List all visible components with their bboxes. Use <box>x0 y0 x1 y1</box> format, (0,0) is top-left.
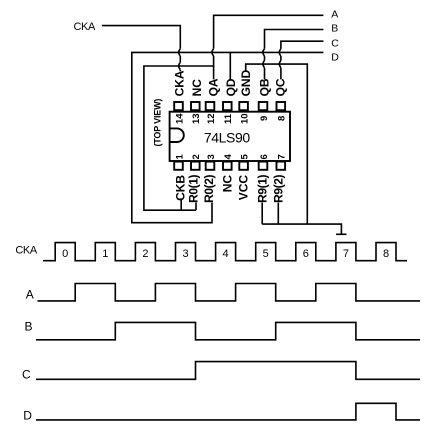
svg-text:74LS90: 74LS90 <box>204 129 250 145</box>
wire C net: QC pin to label C <box>281 41 324 79</box>
pin 2 square <box>191 162 200 170</box>
svg-text:10: 10 <box>239 113 250 124</box>
svg-text:R0(1): R0(1) <box>187 175 201 203</box>
wire hop CKA over D line <box>179 49 181 56</box>
wire QD drop to pin 11 label <box>229 52 231 79</box>
wire QB output waveform <box>36 322 420 339</box>
svg-text:B: B <box>331 22 338 34</box>
svg-text:QD: QD <box>224 78 238 96</box>
notch index mark <box>170 128 184 142</box>
wire QC output waveform <box>36 362 420 380</box>
svg-text:0: 0 <box>62 248 68 260</box>
svg-text:(TOP VIEW): (TOP VIEW) <box>153 99 163 147</box>
svg-text:B: B <box>25 319 33 333</box>
pin 1 square <box>174 162 183 170</box>
pin 9 square <box>259 102 268 110</box>
svg-text:2: 2 <box>142 248 148 260</box>
wire B net: QB pin to label B <box>265 30 324 80</box>
op-amp U1 74LS90 IC body <box>170 112 290 161</box>
svg-text:4: 4 <box>223 154 234 160</box>
wire QA to CKB and R0(1) net <box>144 66 214 210</box>
svg-text:VCC: VCC <box>237 175 251 201</box>
wire hop QC over GND line <box>279 61 281 68</box>
svg-text:R0(2): R0(2) <box>202 175 216 203</box>
pin 10 square <box>239 102 248 110</box>
ground <box>336 233 346 235</box>
wire hop CKA over QA-CKB line <box>179 62 181 69</box>
svg-text:D: D <box>331 52 339 64</box>
svg-text:7: 7 <box>343 248 349 260</box>
svg-text:9: 9 <box>259 116 270 121</box>
wire D net: QD pin to label D and to R0(2) pin 3 <box>132 52 324 222</box>
svg-text:QC: QC <box>273 78 287 96</box>
wire QD output waveform <box>36 403 420 420</box>
wire QA output waveform <box>38 284 421 301</box>
pin 14 square <box>174 102 183 110</box>
svg-text:NC: NC <box>190 79 204 97</box>
svg-text:GND: GND <box>239 69 253 96</box>
svg-text:R9(1): R9(1) <box>255 175 269 203</box>
pin 8 square <box>277 102 286 110</box>
svg-text:5: 5 <box>239 154 250 160</box>
svg-text:A: A <box>331 9 338 21</box>
svg-text:R9(2): R9(2) <box>271 175 285 203</box>
svg-text:12: 12 <box>206 113 217 124</box>
wire A net: QA pin to label A <box>214 15 324 79</box>
svg-text:3: 3 <box>182 248 188 260</box>
wire CKA net: label to pin 14 <box>102 26 180 72</box>
wire hop QC over D line <box>279 49 281 56</box>
pin 4 square <box>223 162 232 170</box>
svg-text:14: 14 <box>174 113 185 124</box>
svg-text:6: 6 <box>259 154 270 159</box>
pin 13 square <box>191 102 200 110</box>
svg-text:1: 1 <box>102 248 108 260</box>
pin 6 square <box>259 162 268 170</box>
wire GND net: pin 10 to ground <box>246 64 308 224</box>
svg-text:3: 3 <box>206 154 217 159</box>
svg-text:8: 8 <box>383 248 389 260</box>
svg-text:8: 8 <box>277 116 288 121</box>
svg-text:7: 7 <box>277 154 288 159</box>
svg-text:4: 4 <box>223 248 229 260</box>
wire hop QB over D line <box>263 49 265 56</box>
svg-text:QA: QA <box>206 78 220 96</box>
svg-text:QB: QB <box>257 78 271 96</box>
svg-text:C: C <box>331 37 339 49</box>
wire hop QB over GND line <box>263 61 265 68</box>
pin 7 square <box>277 162 286 170</box>
svg-text:CKA: CKA <box>173 70 187 96</box>
svg-text:C: C <box>22 367 31 381</box>
svg-text:13: 13 <box>191 113 202 124</box>
svg-text:NC: NC <box>221 175 235 193</box>
svg-text:CKA: CKA <box>15 245 37 257</box>
svg-text:6: 6 <box>303 248 309 260</box>
svg-text:CKA: CKA <box>74 21 96 33</box>
pin 12 square <box>206 102 215 110</box>
wire CKA clock waveform <box>43 243 407 261</box>
pin 3 square <box>206 162 215 170</box>
svg-text:D: D <box>23 408 32 422</box>
svg-text:11: 11 <box>223 113 234 124</box>
wire R9(1) and R9(2) to ground rail <box>262 203 341 235</box>
pin 11 square <box>223 102 232 110</box>
svg-text:A: A <box>26 288 34 302</box>
svg-text:2: 2 <box>191 154 202 159</box>
svg-text:1: 1 <box>174 154 185 160</box>
svg-text:5: 5 <box>263 248 269 260</box>
pin 5 square <box>239 162 248 170</box>
wire hop QA over D line <box>212 49 214 56</box>
